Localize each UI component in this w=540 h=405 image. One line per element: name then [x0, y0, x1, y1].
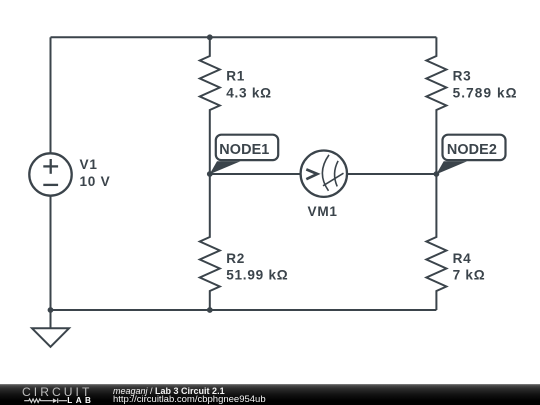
svg-text:7 kΩ: 7 kΩ	[453, 267, 486, 282]
svg-text:VM1: VM1	[308, 204, 338, 219]
svg-text:R3: R3	[453, 69, 472, 84]
svg-text:R2: R2	[226, 251, 245, 266]
svg-text:10 V: 10 V	[80, 174, 111, 189]
svg-text:LAB: LAB	[67, 396, 94, 405]
svg-text:V1: V1	[80, 157, 98, 172]
svg-text:5.789 kΩ: 5.789 kΩ	[453, 86, 518, 101]
svg-text:NODE2: NODE2	[447, 142, 497, 158]
svg-text:4.3 kΩ: 4.3 kΩ	[226, 86, 272, 101]
svg-text:R1: R1	[226, 69, 245, 84]
svg-text:51.99 kΩ: 51.99 kΩ	[226, 267, 288, 282]
svg-text:R4: R4	[453, 251, 472, 266]
svg-text:NODE1: NODE1	[219, 142, 269, 158]
